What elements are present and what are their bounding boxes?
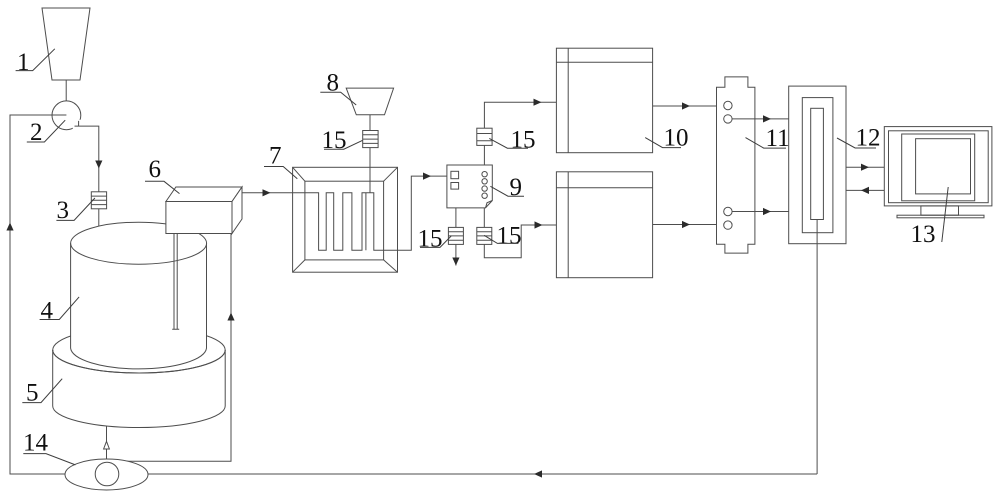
stirrer rod from mixer6 bbox=[172, 234, 179, 330]
arrow right into box9 bbox=[423, 173, 431, 180]
plate11 ports bbox=[724, 101, 732, 109]
processor unit12 outer bbox=[789, 86, 846, 244]
wire box10 upper to plate11 bbox=[653, 105, 724, 107]
svg-text:13: 13 bbox=[911, 221, 936, 248]
tank4 outline bbox=[71, 222, 207, 264]
svg-text:7: 7 bbox=[269, 143, 282, 170]
svg-text:12: 12 bbox=[856, 125, 881, 152]
valve3 bbox=[91, 192, 106, 209]
arrow left on bottom return bbox=[534, 470, 542, 477]
wire pump2 outlet to valve3 bbox=[75, 121, 99, 192]
wire tank5 bottom to pump14 bbox=[106, 426, 108, 459]
wire plate11 to unit12 lower bbox=[732, 211, 789, 213]
label 12 bbox=[837, 125, 881, 152]
wire unit12 to monitor13 bbox=[846, 166, 884, 168]
svg-text:14: 14 bbox=[23, 430, 49, 457]
wire box9 bottom-right to valve15 to box10 lower bbox=[484, 208, 556, 258]
wire unit12 to feedback riser bbox=[816, 220, 818, 475]
label 7 bbox=[264, 143, 297, 179]
valve15 under funnel8 bbox=[363, 131, 378, 148]
label 11 bbox=[746, 125, 790, 152]
wire left-feedback vertical and bottom return bbox=[10, 115, 817, 474]
wire valve15 to reactor7 bbox=[369, 148, 371, 193]
funnel hopper8 bbox=[346, 88, 393, 115]
svg-text:15: 15 bbox=[418, 226, 443, 253]
box9 square indicator 2 bbox=[451, 183, 459, 190]
mixer box6 top face bbox=[166, 187, 242, 202]
arrow right into box10 lower bbox=[535, 221, 543, 228]
pump14 rotor circle bbox=[95, 462, 119, 486]
unit12 inner bar bbox=[811, 108, 824, 219]
wire box6 outlet to reactor7 serpentine bbox=[242, 176, 447, 250]
cylinder5 front rim arc bbox=[53, 350, 226, 373]
label 6 bbox=[145, 156, 180, 194]
label 5 bbox=[22, 379, 62, 407]
valve15 below box9 left bbox=[448, 227, 463, 244]
unit12 middle bbox=[802, 98, 833, 233]
wire monitor13 to unit12 bbox=[846, 189, 884, 191]
wire funnel8 stem bbox=[369, 115, 371, 131]
arrow right unit12 to monitor13 bbox=[861, 164, 869, 171]
pump2 inlet inner line bbox=[52, 114, 66, 116]
arrow up on riser to mixer6 bbox=[227, 313, 234, 321]
wire plate11 to unit12 upper bbox=[732, 118, 789, 120]
label 13 bbox=[911, 187, 949, 248]
pump2 outlet notch bbox=[73, 120, 83, 130]
cylinder5 sides and bottom bbox=[53, 350, 226, 428]
svg-text:15: 15 bbox=[511, 127, 536, 154]
wire box9 top to valve15 and to box10 upper bbox=[484, 102, 556, 165]
mixer box6 front face bbox=[166, 202, 232, 234]
wire pump14 to riser into mixer6 bbox=[127, 234, 231, 462]
label 15 at funnel8 bbox=[322, 127, 363, 154]
interface plate11 bbox=[717, 77, 755, 253]
arrow left monitor13 to unit12 bbox=[861, 187, 869, 194]
monitor13 screen bbox=[916, 139, 971, 194]
arrow right box10 to plate11 upper bbox=[682, 102, 690, 109]
pump14 ellipse bbox=[65, 459, 148, 490]
valve15 above box9 bbox=[477, 128, 492, 145]
funnel hopper1 bbox=[42, 8, 90, 80]
label 15 left of drain valve bbox=[418, 226, 452, 253]
reactor7 outer frame bbox=[293, 167, 398, 272]
svg-text:4: 4 bbox=[41, 298, 54, 325]
detector box10 lower bbox=[556, 172, 652, 278]
arrow right box10 to plate11 lower bbox=[682, 221, 690, 228]
label 10 bbox=[645, 125, 688, 152]
label 3 bbox=[56, 197, 95, 224]
wire box9 bottom-left to valve15 and drain bbox=[455, 208, 457, 266]
monitor13 outer frame bbox=[884, 127, 992, 206]
svg-text:9: 9 bbox=[510, 174, 523, 201]
monitor13 frame2 bbox=[889, 131, 989, 203]
box9 square indicator 1 bbox=[451, 171, 459, 178]
label 9 bbox=[490, 174, 524, 201]
svg-text:6: 6 bbox=[149, 156, 162, 183]
arrow right plate11 to unit12 upper bbox=[763, 115, 771, 122]
arrow up on left feedback bbox=[6, 223, 13, 231]
box9 fold corner bbox=[486, 201, 493, 208]
arrow right plate11 to unit12 lower bbox=[763, 208, 771, 215]
reactor7 corner mitres bbox=[293, 167, 398, 272]
arrow down drain below valve15 bbox=[452, 258, 459, 266]
reactor7 inner frame bbox=[305, 181, 384, 260]
label 15 right of lower valve bbox=[484, 223, 521, 250]
valve15 below box9 right bbox=[477, 227, 492, 244]
label 1 bbox=[16, 49, 55, 76]
pump2 circle bbox=[52, 101, 81, 130]
label 4 bbox=[40, 297, 80, 325]
label 14 bbox=[23, 430, 75, 465]
svg-text:1: 1 bbox=[17, 49, 30, 76]
node cylinder5 top ellipse bbox=[53, 327, 226, 373]
svg-text:15: 15 bbox=[322, 127, 347, 154]
label 8 bbox=[320, 70, 356, 106]
label 15 above box9 bbox=[489, 127, 535, 154]
open arrow up into tank5 bbox=[104, 441, 110, 449]
svg-text:15: 15 bbox=[497, 223, 522, 250]
controller box9 bbox=[447, 165, 492, 208]
monitor13 bezel bbox=[902, 134, 975, 201]
mixer box6 right face bbox=[232, 187, 242, 234]
wire funnel1 stem bbox=[65, 80, 67, 101]
arrow down into valve3 bbox=[95, 161, 102, 169]
arrow right into box10 upper bbox=[534, 99, 542, 106]
box9 circle indicators bbox=[482, 172, 487, 177]
detector box10 upper bbox=[556, 48, 652, 153]
wire valve3 to tank4 dip tube bbox=[98, 209, 100, 343]
monitor13 neck bbox=[921, 206, 959, 215]
tank4 body fill bbox=[71, 243, 207, 348]
monitor13 base bbox=[897, 215, 984, 218]
label 2 bbox=[27, 119, 65, 146]
arrow right into reactor7 bbox=[263, 189, 271, 196]
wire box10 lower to plate11 bbox=[653, 224, 725, 226]
